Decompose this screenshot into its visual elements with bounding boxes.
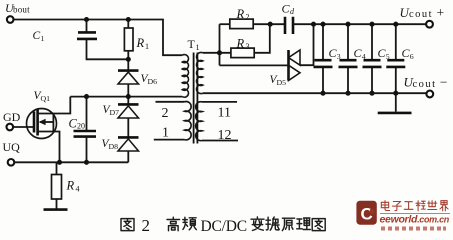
- svg-text:+: +: [437, 5, 445, 20]
- svg-text:R: R: [236, 37, 245, 51]
- svg-text:C: C: [361, 205, 373, 224]
- svg-text:1: 1: [196, 43, 200, 52]
- svg-text:12: 12: [218, 128, 232, 143]
- svg-text:D5: D5: [277, 78, 287, 87]
- svg-text:Q1: Q1: [41, 94, 51, 103]
- svg-text:4: 4: [76, 185, 80, 194]
- svg-text:2: 2: [246, 13, 250, 22]
- svg-text:2: 2: [162, 106, 169, 121]
- svg-text:d: d: [290, 7, 295, 16]
- svg-text:D8: D8: [109, 142, 119, 151]
- svg-text:R: R: [236, 7, 245, 21]
- svg-text:C: C: [33, 30, 41, 42]
- svg-text:D6: D6: [148, 77, 158, 86]
- svg-text:20: 20: [77, 122, 85, 131]
- svg-text:DC/DC: DC/DC: [201, 218, 247, 235]
- svg-text:1: 1: [41, 34, 45, 43]
- svg-text:D7: D7: [110, 108, 120, 117]
- svg-text:R: R: [136, 36, 145, 50]
- svg-text:1: 1: [162, 126, 169, 141]
- svg-text:3: 3: [246, 42, 250, 51]
- svg-text:2: 2: [142, 216, 151, 235]
- svg-text:cout: cout: [413, 79, 437, 90]
- svg-text:GD: GD: [3, 110, 21, 124]
- svg-text:3: 3: [337, 52, 341, 61]
- svg-text:1: 1: [145, 42, 149, 51]
- svg-text:eeworld.com.cn: eeworld.com.cn: [380, 214, 450, 226]
- svg-text:T: T: [188, 37, 196, 51]
- svg-text:cout: cout: [409, 9, 433, 20]
- svg-text:−: −: [440, 75, 448, 90]
- svg-text:bout: bout: [13, 5, 30, 15]
- svg-text:11: 11: [218, 105, 231, 120]
- svg-text:6: 6: [410, 52, 414, 61]
- svg-text:4: 4: [362, 52, 366, 61]
- svg-text:R: R: [66, 179, 75, 193]
- svg-text:UQ: UQ: [3, 140, 21, 154]
- svg-text:5: 5: [386, 52, 390, 61]
